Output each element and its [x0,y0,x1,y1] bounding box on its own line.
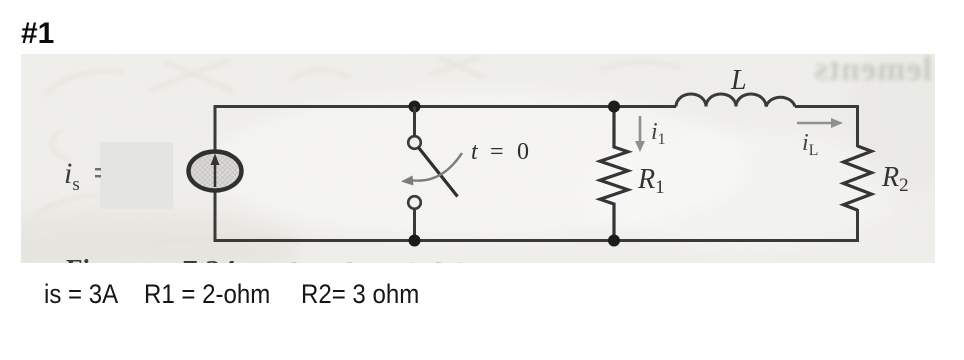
faint pencil bleed marks [35,57,680,245]
wire switch lower [413,209,416,241]
svg-text:lements: lements [814,51,932,88]
current source is [189,152,242,191]
resistor R2 [844,146,872,210]
node R1 bottom [608,235,620,247]
partial equals sign [95,168,101,170]
switch [401,101,462,247]
current arrow i1 [639,116,642,144]
resistor R1 [600,107,628,243]
node bottom (switch) [409,235,421,247]
switch contact upper [408,136,421,149]
switch contact lower [408,196,421,209]
wire right vertical upper [856,105,859,147]
current arrow iL [797,122,834,125]
paper shading blotches [210,90,750,240]
caption values [44,280,118,310]
heading #1 [21,19,54,49]
wire bottom [214,239,860,242]
node R1 top [608,101,620,113]
wire left vertical [214,105,217,242]
scanned paper background [21,54,935,263]
cropped figure caption at scan bottom [66,253,474,288]
svg-text:L: L [730,65,747,96]
switch motion arc [410,153,462,181]
node top (switch) [409,101,421,113]
wire top-right [795,105,858,108]
wire switch upper [413,107,416,137]
switch blade [419,148,458,197]
inductor L [676,94,795,107]
redaction box [100,142,173,209]
wire right vertical lower [856,209,859,242]
wire top [215,105,676,108]
